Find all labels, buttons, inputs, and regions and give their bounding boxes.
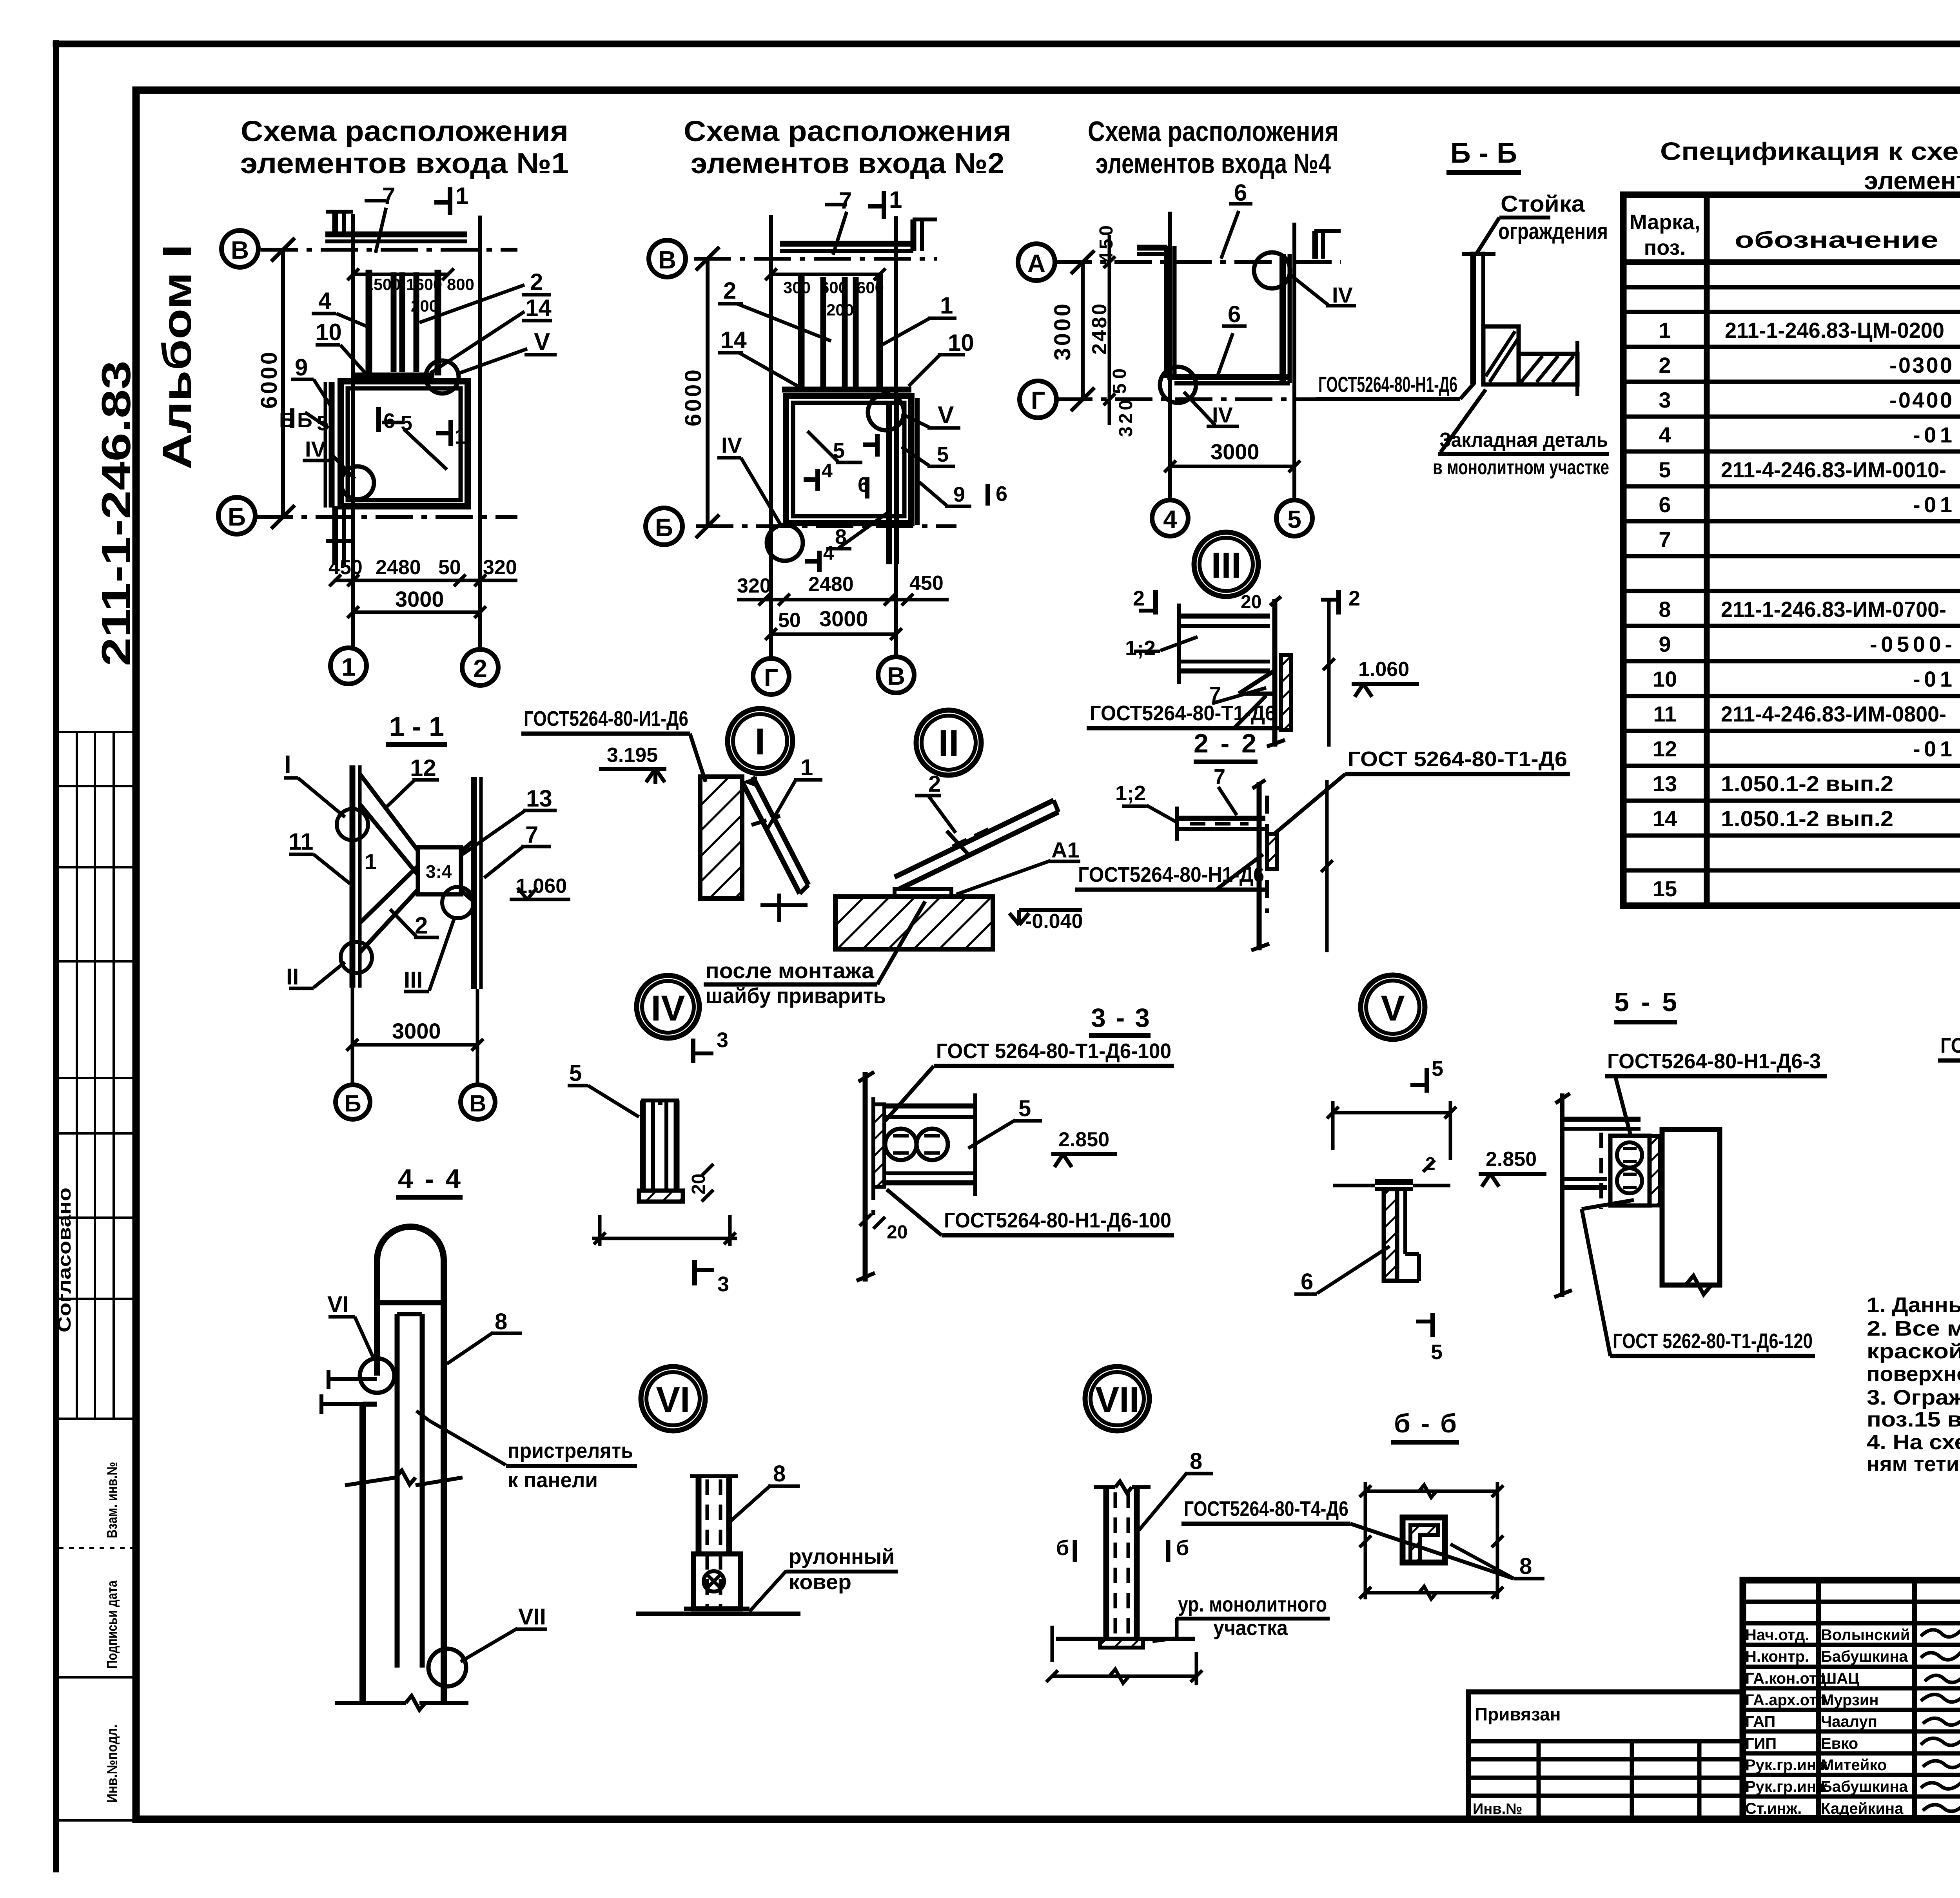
section 5-5 title [1614, 1020, 1677, 1024]
leader poz 4 [336, 314, 369, 327]
channel section 6-6 [1403, 1517, 1445, 1563]
column right 5-5 [1662, 1129, 1720, 1285]
ladder arc top 4-4 [377, 1227, 444, 1282]
section mark 1 bottom [448, 420, 453, 446]
svg-text:IV: IV [1212, 402, 1233, 427]
outer border left [53, 43, 59, 1869]
svg-text:6: 6 [996, 482, 1007, 506]
axis circle V [221, 230, 258, 267]
leader 2 1-1 [390, 909, 416, 937]
svg-text:элементов входов: элементов входов [1864, 167, 1960, 195]
svg-text:13: 13 [526, 785, 552, 812]
bottom dim line row1 [334, 579, 517, 582]
base dim lines IV [598, 1215, 602, 1246]
base plate IV [639, 1191, 683, 1202]
base feet VI [684, 1607, 750, 1611]
svg-text:12: 12 [410, 755, 436, 781]
svg-text:320: 320 [737, 575, 771, 597]
bottom dim line row1 [737, 598, 949, 602]
stair stringers [366, 270, 372, 375]
svg-text:ГАП: ГАП [1745, 1713, 1775, 1730]
svg-text:6: 6 [1228, 301, 1241, 327]
svg-text:ур. монолитного: ур. монолитного [1178, 1593, 1327, 1616]
axis line 1 vertical [351, 214, 355, 649]
svg-text:1.060: 1.060 [1358, 658, 1409, 681]
svg-text:211-1-246.83-ИМ-0700-: 211-1-246.83-ИМ-0700- [1721, 597, 1946, 622]
leader 7 2-2 [1218, 787, 1237, 815]
svg-text:211-1-246.83: 211-1-246.83 [94, 361, 139, 666]
post VII [1103, 1488, 1109, 1639]
svg-text:Б: Б [228, 503, 246, 531]
svg-text:поз.15 в двух уровнях . Крепл: поз.15 в двух уровнях . Крепление к стен… [1867, 1408, 1960, 1431]
ladder inner rails 4-4 [395, 1314, 400, 1668]
svg-text:IV: IV [305, 437, 326, 461]
axis circle G s2 [753, 658, 789, 694]
section mark 5 bottom V [1430, 1313, 1435, 1337]
svg-text:I: I [284, 750, 291, 778]
svg-text:Б: Б [279, 408, 294, 432]
svg-text:8: 8 [1190, 1448, 1202, 1474]
svg-text:ГА.арх.отл: ГА.арх.отл [1745, 1691, 1827, 1709]
svg-text:V: V [534, 328, 550, 355]
section 1 mark mid s2 [875, 434, 880, 457]
landing rect outer [341, 381, 468, 506]
svg-text:11: 11 [289, 828, 313, 855]
junction circle IV top s4 [1254, 252, 1290, 288]
leader 2 detail II [928, 796, 956, 833]
svg-text:5: 5 [1287, 505, 1301, 533]
svg-text:11: 11 [1653, 702, 1676, 726]
svg-text:Бабушкина: Бабушкина [1821, 1778, 1908, 1795]
axis circle V2 s2 [878, 657, 914, 693]
stair stringers [798, 274, 805, 392]
svg-text:ГИП: ГИП [1745, 1735, 1777, 1752]
svg-text:ШАЦ: ШАЦ [1821, 1670, 1859, 1687]
post V hatched [1384, 1189, 1397, 1281]
svg-text:Стойка: Стойка [1501, 191, 1585, 217]
top wall line s4 [1137, 245, 1167, 251]
axis G horizontal [1055, 397, 1325, 401]
svg-text:А: А [1027, 249, 1045, 277]
axis A horizontal [1054, 260, 1341, 264]
svg-text:ГОСТ 5264-80-Т1-Д6-100: ГОСТ 5264-80-Т1-Д6-100 [936, 1039, 1171, 1063]
svg-text:ГОСТ5264-80-Н1-Д6: ГОСТ5264-80-Н1-Д6 [1318, 372, 1457, 397]
svg-text:-01: -01 [1913, 667, 1952, 691]
svg-text:7: 7 [1659, 527, 1671, 552]
svg-text:Взам. инв.№: Взам. инв.№ [104, 1462, 120, 1538]
leader poz 8 s2 [839, 513, 887, 548]
svg-text:Марка,: Марка, [1630, 210, 1700, 234]
entry right step s4 [1312, 231, 1318, 259]
channel beam III [1179, 596, 1335, 747]
svg-text:А1: А1 [1051, 838, 1080, 862]
section marks B-B left [290, 408, 294, 428]
dim 3000 1-1 [352, 1043, 477, 1047]
svg-text:20: 20 [887, 1222, 907, 1243]
svg-text:-01: -01 [1913, 736, 1952, 761]
svg-text:Митейко: Митейко [1821, 1757, 1887, 1774]
svg-text:VII: VII [1095, 1380, 1139, 1420]
wall top double line [780, 241, 913, 247]
axis drops 1-1 [351, 988, 354, 1084]
leader poz 9 s2 [919, 482, 947, 506]
svg-text:V: V [938, 402, 954, 429]
svg-text:1: 1 [455, 425, 466, 448]
title block outline [1743, 1580, 1960, 1818]
svg-text:б: б [1056, 1536, 1069, 1560]
svg-text:б-б: б-б [1394, 1409, 1457, 1438]
svg-text:шайбу приварить: шайбу приварить [706, 983, 886, 1008]
svg-text:-0.040: -0.040 [1025, 910, 1083, 933]
leader VII 4-4 [461, 1628, 517, 1662]
bottom dim line 3000 s4 [1170, 465, 1294, 468]
bolts 3-3 [885, 1129, 916, 1160]
svg-text:В: В [887, 662, 905, 690]
ground line VI [636, 1612, 800, 1616]
leader 1;2 2-2 [1147, 805, 1177, 822]
svg-text:к панели: к панели [508, 1468, 598, 1492]
leader 1 detail I [766, 780, 796, 831]
leader node IV s2 [741, 458, 782, 527]
svg-text:6: 6 [383, 409, 395, 433]
svg-text:Рук.гр.инж: Рук.гр.инж [1745, 1778, 1828, 1795]
section mark 3 bottom [692, 1260, 697, 1285]
svg-text:II: II [938, 722, 959, 764]
slab right hatched [1519, 354, 1577, 384]
bottom break 4-4 [335, 1701, 406, 1705]
svg-text:600: 600 [820, 278, 848, 297]
fence stub below [332, 506, 338, 565]
leader poz 10 [340, 345, 365, 373]
junction circle V node [868, 394, 904, 430]
beams 5-5 [1564, 1117, 1641, 1122]
dim 20 3-3 [860, 1214, 871, 1226]
svg-text:5: 5 [1431, 1340, 1443, 1364]
leader 5 IV [588, 1086, 639, 1117]
axis circle B s2 [646, 508, 682, 545]
ladder outer rails 4-4 [374, 1282, 380, 1376]
top dim line [353, 273, 448, 276]
svg-text:ГА.кон.отд: ГА.кон.отд [1745, 1670, 1826, 1687]
junction circle IV node [341, 466, 374, 499]
dim line 3000 vertical [1081, 262, 1085, 399]
dim line 6000 vertical [706, 259, 710, 526]
svg-text:1;2: 1;2 [1115, 781, 1146, 805]
svg-text:ковер: ковер [789, 1570, 851, 1594]
stair top rail [782, 387, 911, 393]
detail circle V [1361, 975, 1425, 1039]
svg-text:1: 1 [456, 183, 468, 209]
svg-text:20: 20 [688, 1174, 709, 1195]
hatched pad 5-5 [1650, 1136, 1660, 1206]
leader node IV [332, 455, 355, 479]
axis circle A s4 [1018, 244, 1055, 281]
detail circle VI [641, 1367, 705, 1431]
section 4 marks s2 [815, 469, 820, 491]
svg-text:50: 50 [438, 556, 461, 579]
ladder stremyanka right [886, 401, 892, 564]
svg-text:9: 9 [953, 483, 965, 506]
svg-text:В: В [231, 236, 249, 264]
brace diag top 1-1 [360, 774, 418, 850]
svg-text:Закладная деталь: Закладная деталь [1439, 429, 1608, 451]
svg-text:2.850: 2.850 [1058, 1128, 1109, 1151]
svg-text:Б: Б [297, 408, 312, 432]
svg-text:поверхности.: поверхности. [1867, 1362, 1960, 1386]
svg-text:-01: -01 [1913, 422, 1952, 447]
svg-text:600: 600 [857, 278, 884, 297]
section b marks VII [1073, 1540, 1077, 1562]
leader poz 5b s2 [902, 447, 929, 466]
svg-text:1.050.1-2 вып.2: 1.050.1-2 вып.2 [1721, 771, 1893, 796]
signature table rows [1743, 1600, 1960, 1604]
axis line V horizontal [261, 248, 517, 252]
svg-text:ГОСТ 5262-80-Т1-Д6-120: ГОСТ 5262-80-Т1-Д6-120 [1613, 1329, 1813, 1353]
svg-text:7: 7 [839, 187, 852, 214]
washer plate 2-2 [1267, 834, 1277, 869]
svg-text:Ст.инж.: Ст.инж. [1745, 1800, 1802, 1817]
svg-text:ням тетив лестниц.: ням тетив лестниц. [1867, 1452, 1960, 1476]
svg-text:13: 13 [1653, 771, 1677, 796]
post channel IV [592, 1100, 737, 1285]
svg-text:Волынский: Волынский [1821, 1626, 1910, 1644]
detail circle IV [637, 975, 699, 1038]
svg-text:ГОСТ5264-80-Н1-Д6-3: ГОСТ5264-80-Н1-Д6-3 [1607, 1050, 1821, 1073]
svg-text:Рук.гр.инж: Рук.гр.инж [1745, 1757, 1828, 1774]
svg-text:8: 8 [835, 525, 847, 549]
bottom dim line row2 3000 [771, 633, 896, 636]
leader A1 detail II [956, 861, 1051, 894]
svg-text:III: III [1211, 546, 1241, 586]
svg-text:12: 12 [1653, 736, 1677, 761]
svg-text:В: В [469, 1090, 486, 1117]
svg-text:I: I [755, 721, 766, 763]
svg-text:1: 1 [800, 755, 813, 780]
svg-text:450: 450 [1096, 225, 1117, 263]
center gusset 1-1 [418, 847, 461, 894]
svg-text:200: 200 [826, 301, 854, 319]
axis circle V s2 [649, 240, 686, 277]
wall post 3-3 [863, 1072, 868, 1282]
svg-text:3: 3 [717, 1273, 729, 1296]
baseplate VII [1100, 1639, 1143, 1648]
svg-text:4. На схемах привязки поз.1: 4. На схемах привязки поз.12 даны по вну… [1867, 1430, 1960, 1454]
svg-text:Г: Г [764, 663, 778, 692]
svg-text:15: 15 [1653, 876, 1677, 901]
svg-text:6: 6 [1234, 179, 1247, 206]
svg-text:IV: IV [1332, 283, 1353, 307]
dim line 2480/450 vertical [1108, 235, 1111, 425]
axis 4 vertical [1168, 212, 1172, 500]
svg-text:после монтажа: после монтажа [706, 958, 875, 983]
svg-text:320: 320 [483, 556, 517, 579]
svg-text:Инв.№: Инв.№ [1473, 1801, 1523, 1817]
svg-text:4: 4 [823, 542, 834, 564]
leader 8 VI [728, 1485, 771, 1524]
svg-text:3.195: 3.195 [607, 744, 658, 767]
svg-text:4: 4 [1163, 505, 1177, 533]
axis circle V 1-1 [461, 1085, 495, 1119]
leader 7 1-1 [484, 847, 523, 878]
node circle VI 4-4 [360, 1358, 394, 1393]
spec table grid [1623, 195, 1960, 906]
svg-text:4: 4 [822, 460, 833, 482]
leader 8 6-6 [1450, 1544, 1514, 1579]
axis circle 4 s4 [1152, 500, 1188, 536]
ladder left lower rail 4-4 [359, 1404, 366, 1703]
leader 6 V [1317, 1246, 1390, 1293]
leader VI 4-4 [355, 1317, 374, 1360]
svg-text:1: 1 [341, 653, 356, 681]
svg-text:2: 2 [1425, 1153, 1436, 1174]
svg-text:V: V [1381, 988, 1405, 1028]
svg-text:краской за 2 раза по предв: краской за 2 раза по предварительно огру… [1867, 1340, 1960, 1363]
section mark 3 top [691, 1039, 695, 1063]
axis line G vertical [769, 215, 773, 658]
bar 2-2 [1178, 816, 1265, 821]
node circles 1-1 [337, 809, 368, 840]
stringer post left 1-1 [350, 765, 356, 988]
svg-text:2480: 2480 [376, 556, 421, 579]
svg-text:б: б [1176, 1536, 1189, 1560]
bottom dim line row2 3000 [353, 611, 480, 614]
leader poz 1 s2 [882, 318, 930, 345]
leader 11 [314, 854, 350, 884]
dim 20 IV [702, 1164, 713, 1176]
svg-text:2: 2 [415, 912, 428, 939]
plate III [1281, 655, 1291, 730]
svg-text:3000: 3000 [819, 606, 868, 631]
leader IV bottom s4 [1184, 392, 1215, 425]
landing walls s4 [1164, 246, 1171, 378]
leader 6 top s4 [1221, 211, 1239, 259]
svg-text:ограждения: ограждения [1498, 219, 1608, 244]
svg-text:ГОСТ 5264-80-Т1-Д6: ГОСТ 5264-80-Т1-Д6 [1348, 747, 1567, 771]
svg-text:320: 320 [1116, 400, 1136, 437]
svg-text:Схема расположения: Схема расположения [684, 115, 1011, 147]
svg-text:10: 10 [1653, 667, 1677, 691]
svg-text:3000: 3000 [392, 1019, 441, 1043]
svg-text:450: 450 [328, 556, 363, 579]
ground line VII [1056, 1637, 1195, 1641]
svg-text:Согласовано: Согласовано [54, 1187, 74, 1332]
svg-text:14: 14 [720, 327, 747, 353]
leader poz 10 s2 [909, 355, 940, 386]
dim 2 mark V [1423, 1160, 1435, 1172]
bottom dim VII [1051, 1626, 1054, 1662]
svg-text:Б: Б [655, 513, 673, 542]
svg-text:3. Ограждения ОМ между собой: 3. Ограждения ОМ между собой крепятся пр… [1867, 1386, 1960, 1409]
break marks 4-4 [345, 1477, 396, 1485]
svg-text:2: 2 [1348, 587, 1360, 610]
elevation 1,060 [510, 898, 570, 901]
svg-text:4: 4 [1659, 422, 1671, 447]
svg-text:Нач.отд.: Нач.отд. [1745, 1626, 1809, 1644]
junction circle V node [426, 361, 459, 393]
svg-text:3: 3 [717, 1028, 728, 1052]
svg-text:2480: 2480 [808, 573, 854, 596]
leader 1;2 III [1160, 637, 1198, 651]
svg-text:Подписьи дата: Подписьи дата [104, 1580, 120, 1669]
svg-text:8: 8 [1659, 597, 1671, 622]
svg-text:2: 2 [928, 771, 941, 797]
leader 8 VII [1139, 1473, 1187, 1530]
junction circle IV bottom s4 [1160, 367, 1196, 403]
svg-text:В: В [658, 246, 676, 274]
section mark 1 top s2 [882, 191, 886, 219]
svg-text:Мурзин: Мурзин [1821, 1691, 1879, 1709]
svg-text:7: 7 [382, 183, 395, 209]
svg-text:4: 4 [318, 288, 332, 314]
outer border top [56, 41, 1960, 47]
svg-text:2. Все металлические элемен: 2. Все металлические элементы окрасить м… [1867, 1317, 1960, 1340]
top dim line V [1333, 1111, 1450, 1115]
svg-text:10: 10 [948, 330, 974, 356]
svg-text:1: 1 [889, 187, 902, 213]
leader poz 7 [376, 208, 386, 253]
svg-text:1500: 1500 [365, 275, 401, 294]
axis line V2 vertical [894, 216, 898, 658]
svg-text:2.850: 2.850 [1486, 1148, 1537, 1171]
svg-text:Схема расположения: Схема расположения [241, 115, 568, 147]
svg-text:пристрелять: пристрелять [508, 1439, 633, 1463]
svg-text:4-4: 4-4 [398, 1164, 461, 1194]
signature rows texts [1745, 1626, 1910, 1817]
svg-text:3000: 3000 [1210, 439, 1259, 464]
axis circle B 1-1 [336, 1085, 370, 1119]
svg-text:Инв.№подл.: Инв.№подл. [104, 1724, 120, 1803]
svg-text:Бабушкина: Бабушкина [1821, 1648, 1908, 1665]
svg-text:рулонный: рулонный [789, 1545, 895, 1568]
stamp strip left of frame [59, 732, 134, 1820]
svg-text:Чаалуп: Чаалуп [1821, 1713, 1877, 1730]
leader 5 3-3 [968, 1120, 1015, 1148]
svg-text:211-1-246.83-ЦМ-0200: 211-1-246.83-ЦМ-0200 [1725, 318, 1944, 343]
stair flight I [742, 777, 808, 922]
T profile top plate V [1375, 1179, 1413, 1185]
leader poz 7 s2 [833, 212, 847, 255]
svg-text:1-1: 1-1 [389, 711, 444, 742]
axis line V horizontal [694, 257, 937, 261]
axis circle G s4 [1020, 381, 1056, 418]
svg-text:300: 300 [783, 278, 811, 297]
svg-text:1600: 1600 [406, 275, 442, 294]
svg-text:3:4: 3:4 [426, 861, 452, 882]
svg-text:5: 5 [1018, 1096, 1031, 1121]
vert dim 2-2 [1325, 780, 1329, 952]
svg-text:IV: IV [651, 988, 685, 1028]
svg-text:IV: IV [721, 433, 742, 457]
leader IV top s4 [1290, 274, 1328, 305]
svg-text:участка: участка [1213, 1616, 1288, 1640]
svg-text:VI: VI [656, 1380, 690, 1420]
slab concrete II [835, 897, 993, 949]
leader poz 2 [419, 285, 524, 323]
fence right outer [915, 398, 920, 525]
axis circle 1 [330, 648, 367, 684]
bolt plate 5-5 [1610, 1136, 1650, 1206]
junction circle IV node [767, 525, 803, 561]
landing rect inner [793, 403, 904, 516]
svg-text:2: 2 [1659, 353, 1671, 377]
wall line 5-5 [1560, 1093, 1564, 1297]
svg-text:Н.контр.: Н.контр. [1745, 1648, 1809, 1665]
signature table columns [1816, 1580, 1821, 1818]
svg-text:III: III [404, 967, 423, 993]
landing rect inner [348, 388, 461, 500]
plate on slab II [895, 889, 951, 897]
axis 5 vertical [1292, 223, 1296, 500]
